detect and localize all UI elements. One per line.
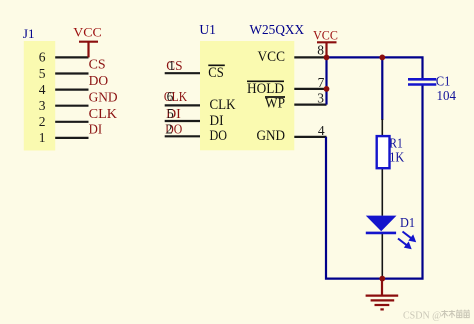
svg-text:4: 4 — [318, 123, 325, 138]
svg-text:CS: CS — [89, 57, 106, 72]
svg-text:CS: CS — [208, 65, 224, 81]
svg-text:VCC: VCC — [73, 25, 102, 40]
svg-text:3: 3 — [39, 98, 46, 113]
svg-text:J1: J1 — [23, 26, 35, 41]
svg-text:CLK: CLK — [210, 97, 236, 113]
svg-text:DO: DO — [210, 128, 228, 144]
svg-text:U1: U1 — [199, 22, 216, 37]
svg-text:2: 2 — [166, 121, 173, 136]
svg-text:CSDN @: CSDN @ — [403, 311, 441, 322]
svg-text:C1: C1 — [436, 73, 451, 88]
svg-text:DI: DI — [89, 122, 103, 137]
svg-text:104: 104 — [437, 88, 457, 103]
svg-text:6: 6 — [39, 50, 46, 65]
svg-text:DO: DO — [89, 73, 109, 88]
svg-text:1K: 1K — [389, 150, 404, 165]
svg-text:6: 6 — [167, 89, 174, 104]
svg-text:2: 2 — [39, 114, 46, 129]
svg-text:1: 1 — [39, 130, 46, 145]
svg-text:4: 4 — [39, 82, 46, 97]
svg-text:D1: D1 — [400, 216, 415, 231]
svg-text:5: 5 — [39, 66, 46, 81]
svg-text:VCC: VCC — [313, 27, 338, 42]
svg-text:GND: GND — [89, 89, 118, 104]
svg-text:5: 5 — [167, 106, 174, 121]
svg-text:DI: DI — [210, 113, 224, 129]
svg-text:1: 1 — [168, 58, 175, 73]
svg-text:3: 3 — [317, 91, 324, 106]
svg-text:WP: WP — [265, 96, 285, 112]
svg-text:GND: GND — [257, 128, 286, 144]
svg-text:VCC: VCC — [258, 49, 286, 65]
svg-text:R1: R1 — [389, 136, 403, 151]
svg-text:7: 7 — [318, 75, 325, 90]
svg-text:8: 8 — [317, 42, 324, 57]
svg-text:CLK: CLK — [89, 106, 118, 121]
svg-text:W25QXX: W25QXX — [250, 22, 305, 37]
